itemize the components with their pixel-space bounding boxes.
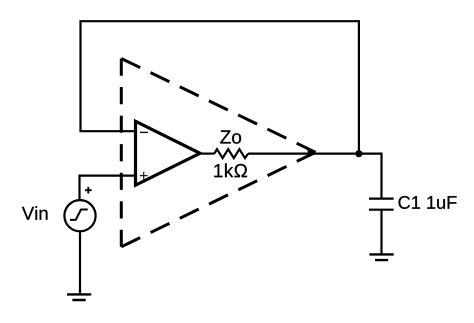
wire non-inverting input to Vin — [80, 176, 137, 200]
step waveform inside source — [70, 210, 88, 220]
arrowhead at dashed model apex — [307, 150, 316, 159]
op-amp macromodel dashed boundary: left edge — [120, 59, 123, 247]
wire source to ground — [79, 232, 81, 295]
op-amp inverting input marker - — [140, 131, 148, 133]
ground below Vin — [67, 294, 91, 300]
node junction dot — [355, 150, 362, 157]
wire capacitor to ground — [380, 210, 382, 254]
source Vin circle — [64, 200, 95, 231]
resistor Zo 1kOhm — [214, 149, 248, 158]
label 1kOhm — [214, 163, 247, 177]
polarity + near source — [85, 187, 92, 194]
label Zo — [220, 130, 241, 143]
capacitor C1 plates — [369, 199, 394, 210]
op-amp macromodel dashed boundary: bottom edge — [121, 152, 315, 247]
wire resistor to output node and capacitor — [248, 154, 381, 199]
ground below C1 — [369, 254, 393, 260]
op-amp U1 triangle — [136, 121, 201, 185]
wire feedback loop from output node to inverting input — [81, 21, 359, 154]
label C1 1uF — [399, 196, 457, 209]
wire op-amp output to resistor — [200, 153, 215, 155]
op-amp non-inverting input marker + — [140, 172, 148, 180]
op-amp macromodel dashed boundary: top edge — [121, 59, 315, 153]
label Vin — [22, 206, 48, 219]
